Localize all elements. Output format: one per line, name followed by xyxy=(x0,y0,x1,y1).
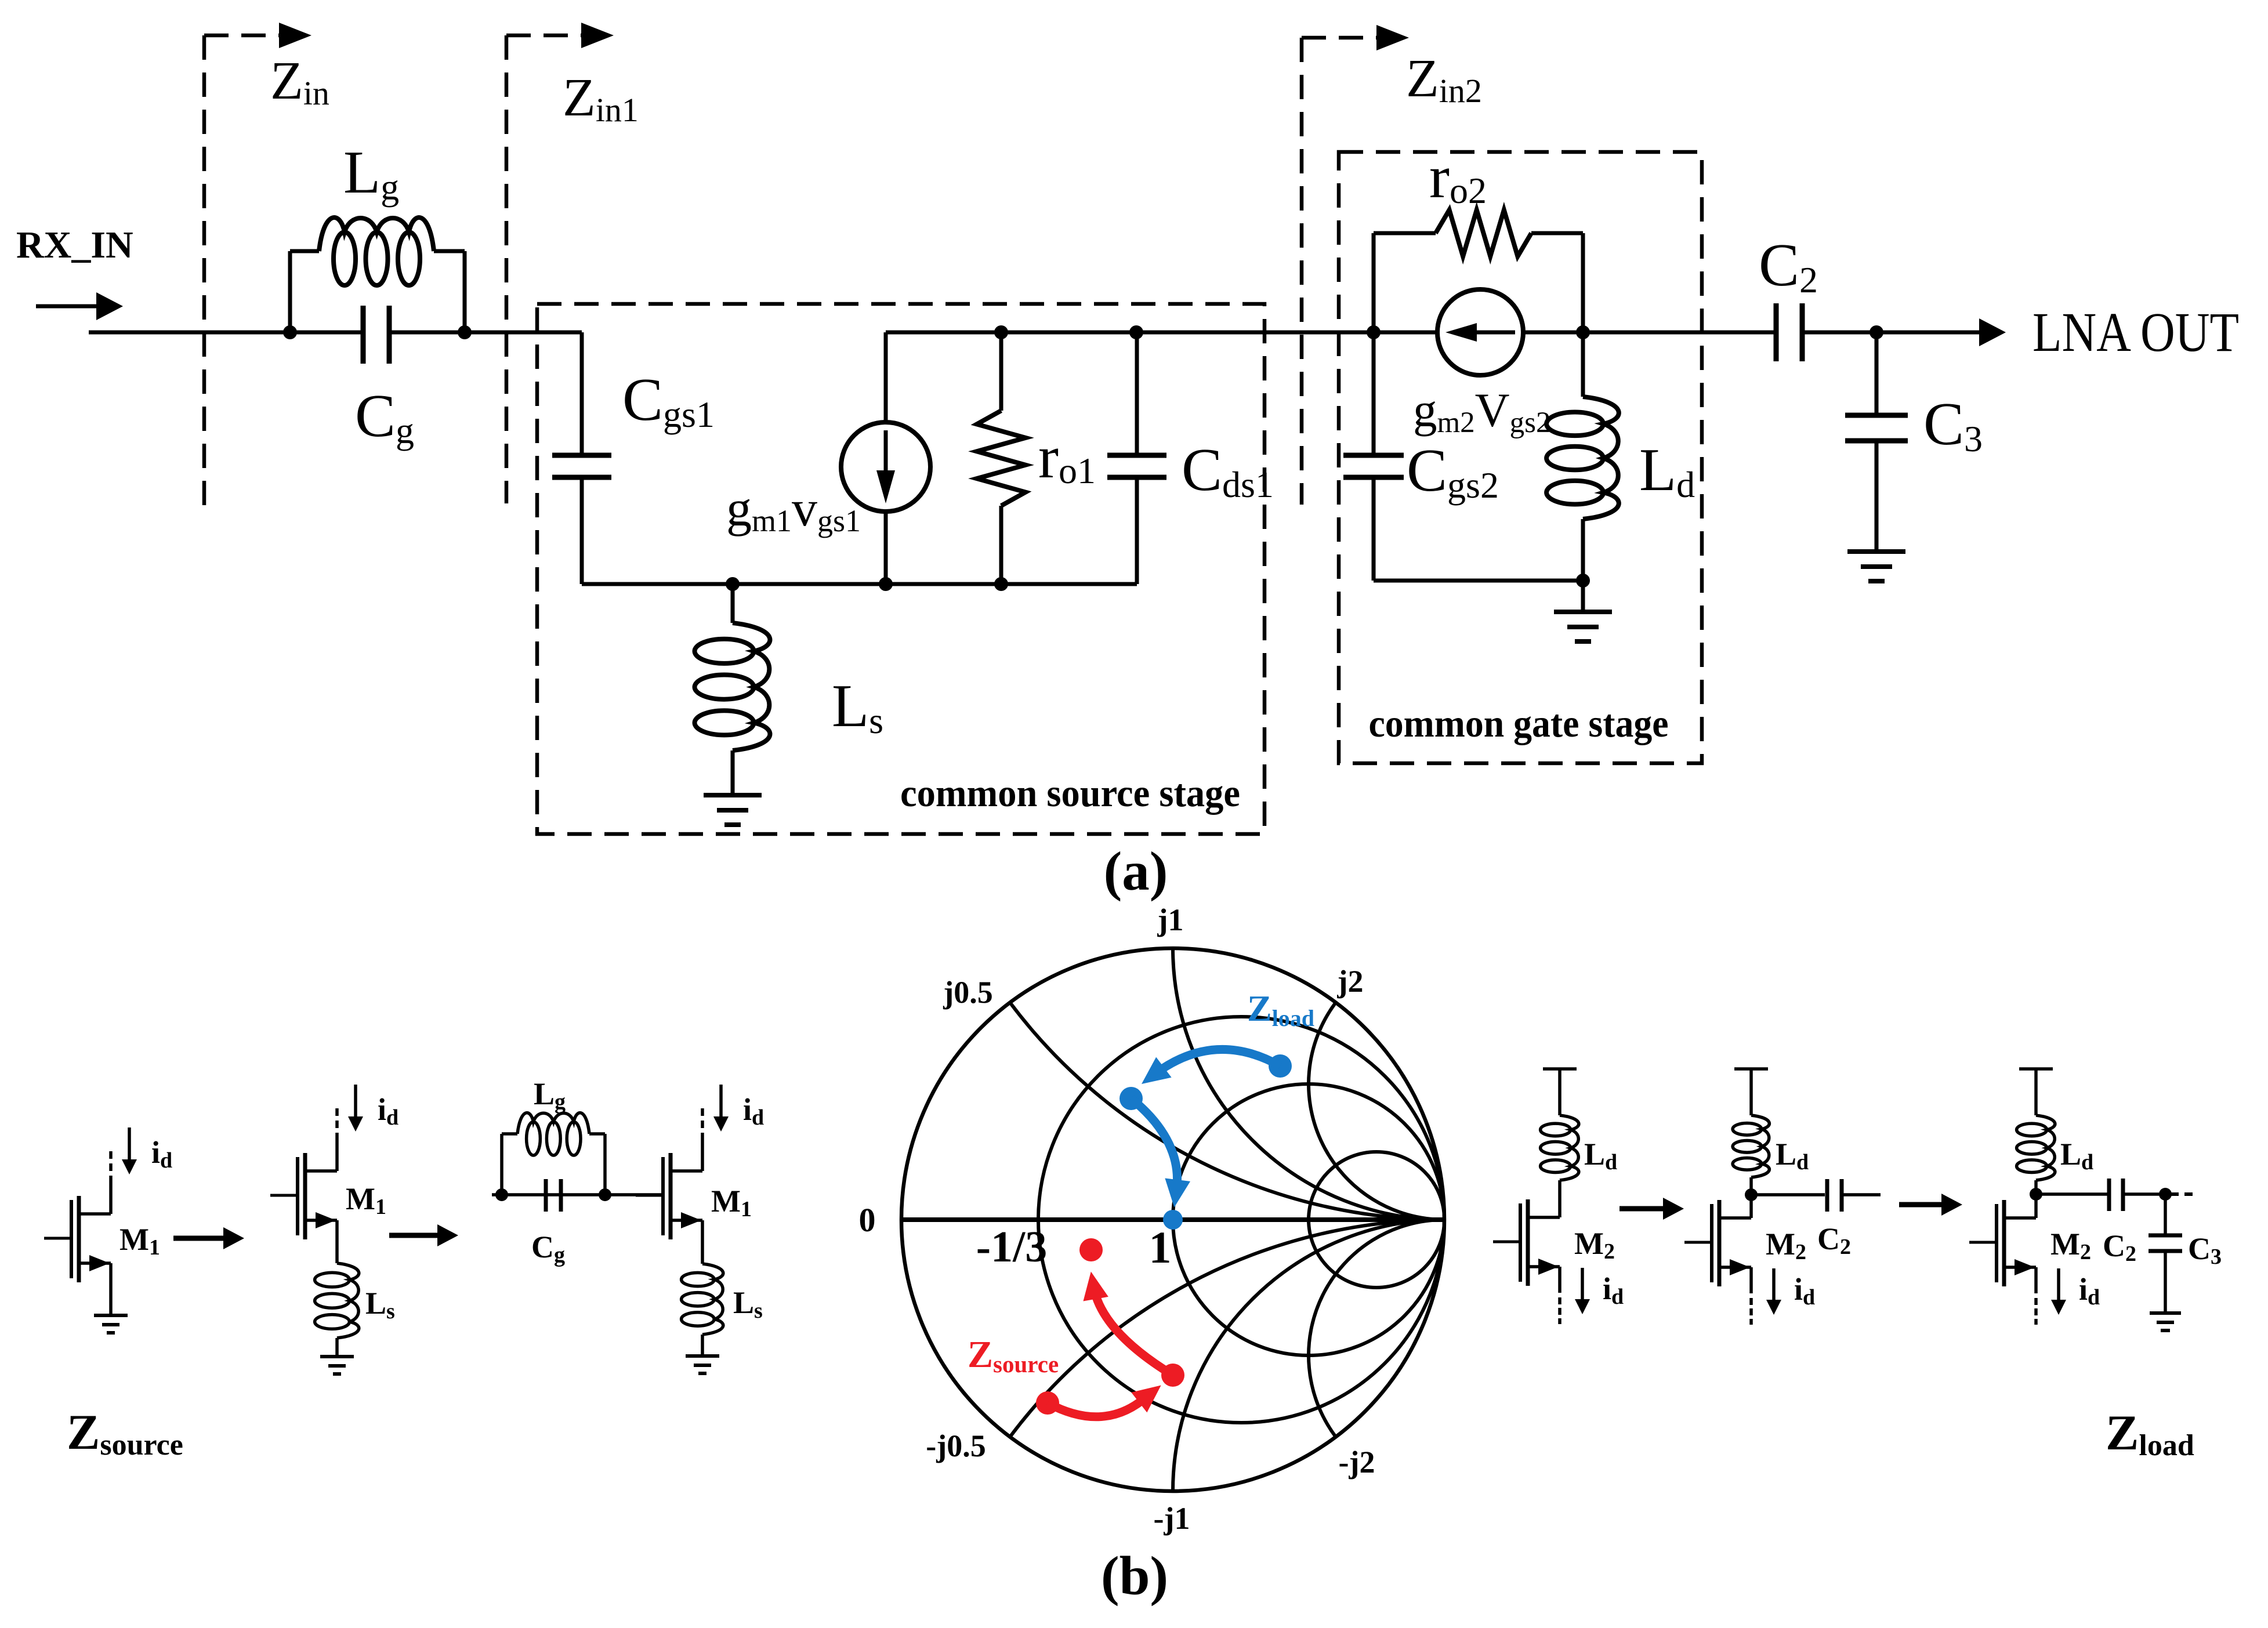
svg-text:LNA OUT: LNA OUT xyxy=(2032,301,2239,363)
svg-text:-1/3: -1/3 xyxy=(976,1223,1047,1271)
svg-text:0: 0 xyxy=(859,1201,876,1239)
svg-text:-j2: -j2 xyxy=(1339,1445,1375,1480)
svg-text:j2: j2 xyxy=(1337,964,1364,999)
svg-text:(a): (a) xyxy=(1104,840,1168,902)
svg-text:common gate stage: common gate stage xyxy=(1369,701,1669,745)
svg-text:j0.5: j0.5 xyxy=(943,975,992,1010)
svg-text:1: 1 xyxy=(1149,1222,1172,1272)
svg-text:RX_IN: RX_IN xyxy=(16,224,133,266)
svg-text:common source stage: common source stage xyxy=(900,771,1240,815)
svg-text:(b): (b) xyxy=(1101,1545,1168,1607)
svg-text:-j1: -j1 xyxy=(1154,1501,1190,1536)
svg-text:-j0.5: -j0.5 xyxy=(926,1428,986,1463)
svg-text:j1: j1 xyxy=(1157,902,1184,937)
